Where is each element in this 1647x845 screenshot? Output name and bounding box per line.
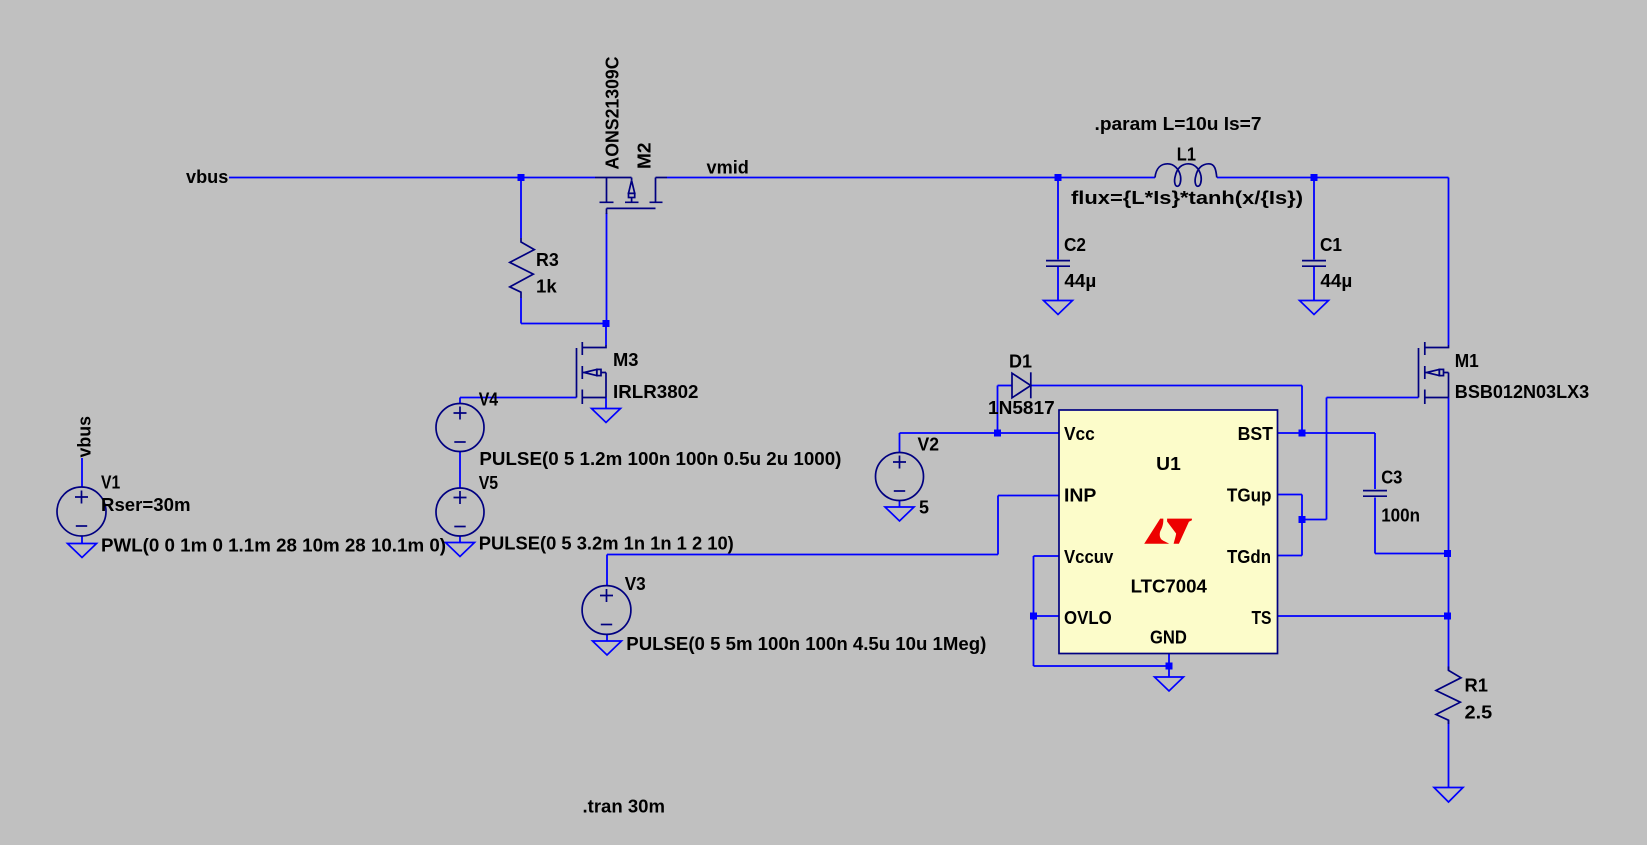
node OVLO junction bbox=[1030, 613, 1037, 620]
svg-text:BSB012N03LX3: BSB012N03LX3 bbox=[1455, 382, 1589, 402]
svg-text:OVLO: OVLO bbox=[1064, 608, 1112, 628]
svg-text:vbus: vbus bbox=[75, 416, 95, 458]
capacitor C2 bbox=[1046, 261, 1070, 267]
wire INP vertical bbox=[997, 496, 999, 555]
wire TS bbox=[1278, 615, 1449, 617]
ground below V3 bbox=[593, 641, 622, 655]
node C2 junction bbox=[1055, 174, 1062, 181]
svg-text:.param L=10u Is=7: .param L=10u Is=7 bbox=[1095, 114, 1262, 134]
wire V3 bottom bbox=[606, 635, 608, 642]
wire C3 bottom bbox=[1374, 498, 1376, 554]
wire R3 to node bbox=[521, 323, 606, 325]
wire M3 drain bbox=[605, 324, 607, 346]
resistor R1 bbox=[1436, 667, 1461, 725]
svg-text:R3: R3 bbox=[536, 250, 559, 270]
wire TGup vertical bbox=[1301, 495, 1303, 520]
diode D1 (1N5817) bbox=[1012, 372, 1031, 398]
svg-text:PWL(0 0 1m 0 1.1m 28 10m 28 10: PWL(0 0 1m 0 1.1m 28 10m 28 10.1m 0) bbox=[101, 536, 446, 556]
svg-text:100n: 100n bbox=[1381, 506, 1420, 526]
svg-text:.tran 30m: .tran 30m bbox=[583, 797, 666, 817]
svg-text:Vcc: Vcc bbox=[1064, 424, 1095, 444]
wire mid right vertical bbox=[1448, 554, 1450, 617]
svg-text:5: 5 bbox=[919, 498, 929, 518]
svg-text:M1: M1 bbox=[1455, 351, 1479, 371]
svg-text:Vccuv: Vccuv bbox=[1064, 547, 1113, 567]
node TG junction bbox=[1299, 516, 1306, 523]
svg-text:V5: V5 bbox=[479, 473, 498, 493]
svg-text:1N5817: 1N5817 bbox=[988, 398, 1055, 418]
resistor R3 bbox=[510, 238, 535, 298]
wire BST vertical bbox=[1301, 386, 1303, 434]
wire GND pin bbox=[1168, 654, 1170, 678]
wire C2 bottom bbox=[1057, 267, 1059, 301]
wire C1 bottom bbox=[1313, 267, 1315, 301]
wire Vcc bbox=[998, 432, 1060, 434]
svg-text:TS: TS bbox=[1252, 608, 1272, 628]
wire D1 anode horizontal bbox=[998, 385, 1013, 387]
svg-text:flux={L*Is}*tanh(x/{Is}): flux={L*Is}*tanh(x/{Is}) bbox=[1071, 188, 1303, 208]
svg-text:INP: INP bbox=[1064, 486, 1096, 506]
ground below C1 bbox=[1300, 301, 1329, 315]
svg-text:V4: V4 bbox=[479, 390, 498, 410]
svg-text:V3: V3 bbox=[625, 574, 646, 594]
node R3/M3 junction bbox=[603, 320, 610, 327]
node C1 junction bbox=[1311, 174, 1318, 181]
wire M1 gate bbox=[1327, 397, 1419, 399]
wire V4 to V5 bbox=[459, 452, 461, 489]
svg-text:PULSE(0 5 5m 100n 100n 4.5u 10: PULSE(0 5 5m 100n 100n 4.5u 10u 1Meg) bbox=[626, 634, 986, 654]
wire bottom to GND bbox=[1034, 665, 1170, 667]
svg-text:TGdn: TGdn bbox=[1227, 547, 1271, 567]
svg-text:C3: C3 bbox=[1381, 468, 1402, 488]
wire INP horizontal bbox=[998, 495, 1059, 497]
wire Vccuv vertical bbox=[1033, 556, 1035, 666]
wire vmid horizontal bbox=[667, 177, 1155, 179]
node GND junction bbox=[1166, 663, 1173, 670]
svg-text:M3: M3 bbox=[613, 350, 639, 370]
LT logo bbox=[1144, 519, 1192, 544]
wire right vertical to M1 drain bbox=[1448, 178, 1450, 346]
voltage source V5 bbox=[436, 488, 484, 536]
svg-text:Rser=30m: Rser=30m bbox=[101, 495, 191, 515]
wire V3 riser bbox=[606, 555, 608, 587]
wire V1 bottom bbox=[81, 536, 83, 544]
node Vcc junction bbox=[994, 430, 1001, 437]
svg-text:V1: V1 bbox=[101, 473, 120, 493]
ground below C2 bbox=[1044, 301, 1073, 315]
capacitor C3 bbox=[1363, 491, 1387, 497]
voltage source V2 bbox=[876, 453, 924, 501]
op-amp U1 body (LTC7004 box) bbox=[1059, 410, 1278, 654]
wire TGup horizontal bbox=[1278, 494, 1302, 496]
svg-text:vmid: vmid bbox=[707, 158, 749, 178]
ground below R1 bbox=[1434, 788, 1463, 803]
wire R1 top bbox=[1448, 616, 1450, 671]
wire OVLO bbox=[1034, 615, 1060, 617]
svg-text:M2: M2 bbox=[635, 143, 655, 170]
wire C1 top bbox=[1313, 178, 1315, 260]
svg-text:44µ: 44µ bbox=[1320, 271, 1352, 291]
wire top-right horizontal bbox=[1217, 177, 1449, 179]
transistor M2 (PMOS AONS21309C, rotated) bbox=[595, 178, 667, 215]
svg-text:L1: L1 bbox=[1177, 145, 1196, 165]
wire R1 bottom bbox=[1448, 720, 1450, 787]
svg-text:V2: V2 bbox=[918, 435, 940, 455]
wire M3 gate to V4 bbox=[460, 397, 577, 399]
wire TGdn vertical bbox=[1301, 520, 1303, 556]
wire TGdn horizontal bbox=[1278, 555, 1302, 557]
node vbus/R3 junction bbox=[518, 174, 525, 181]
wire V1 top bbox=[81, 458, 83, 488]
voltage source V1 bbox=[57, 487, 106, 536]
svg-text:D1: D1 bbox=[1009, 352, 1032, 372]
wire M2 gate down bbox=[606, 213, 608, 324]
wire M1 source down bbox=[1448, 398, 1450, 554]
wire R3 top bbox=[520, 178, 522, 239]
svg-text:PULSE(0 5 1.2m 100n 100n 0.5u: PULSE(0 5 1.2m 100n 100n 0.5u 2u 1000) bbox=[479, 449, 841, 469]
wire V5 to ground bbox=[459, 536, 461, 543]
svg-text:IRLR3802: IRLR3802 bbox=[613, 382, 699, 402]
capacitor C1 bbox=[1302, 261, 1326, 267]
ground below U1 GND pin bbox=[1155, 677, 1184, 691]
svg-text:GND: GND bbox=[1150, 628, 1187, 648]
ground below V2 bbox=[885, 507, 914, 521]
inductor L1 bbox=[1155, 164, 1217, 187]
wire R3 bottom bbox=[520, 298, 522, 324]
ground below M3 bbox=[592, 409, 621, 423]
node BST junction bbox=[1299, 430, 1306, 437]
ground below V5 bbox=[446, 543, 475, 557]
node TS junction bbox=[1444, 613, 1451, 620]
node C3 junction bbox=[1444, 550, 1451, 557]
wire V3 to INP corner bbox=[607, 554, 998, 556]
wire C3 bottom horizontal bbox=[1375, 553, 1449, 555]
wire V4 stub bbox=[459, 398, 461, 404]
wire Vccuv horizontal bbox=[1034, 555, 1060, 557]
wire TG node horizontal bbox=[1302, 519, 1327, 521]
wire TG vertical riser bbox=[1326, 398, 1328, 520]
transistor M1 (NMOS BSB012N03LX3) bbox=[1419, 342, 1449, 404]
svg-text:PULSE(0 5 3.2m 1n 1n 1 2 10): PULSE(0 5 3.2m 1n 1n 1 2 10) bbox=[479, 534, 734, 554]
wire C2 top bbox=[1057, 178, 1059, 260]
wire M3 source to ground bbox=[605, 398, 607, 409]
svg-text:LTC7004: LTC7004 bbox=[1131, 576, 1207, 596]
svg-text:AONS21309C: AONS21309C bbox=[603, 57, 623, 170]
svg-text:1k: 1k bbox=[536, 277, 558, 297]
wire D1 cathode to BST corner bbox=[1031, 385, 1302, 387]
wire V2 to Vcc node bbox=[900, 432, 998, 434]
wire D1 anode vertical bbox=[997, 386, 999, 434]
voltage source V3 bbox=[582, 586, 631, 635]
voltage source V4 bbox=[436, 404, 484, 452]
wire BST horizontal bbox=[1278, 432, 1375, 434]
transistor M3 (NMOS IRLR3802) bbox=[577, 342, 607, 404]
svg-text:R1: R1 bbox=[1465, 676, 1489, 696]
ground below V1 bbox=[68, 544, 97, 558]
wire vbus horizontal bbox=[229, 177, 595, 179]
svg-text:44µ: 44µ bbox=[1064, 271, 1096, 291]
svg-text:C2: C2 bbox=[1064, 235, 1086, 255]
svg-text:TGup: TGup bbox=[1227, 486, 1272, 506]
svg-text:BST: BST bbox=[1238, 424, 1273, 444]
wire V2 bottom bbox=[899, 501, 901, 508]
svg-text:2.5: 2.5 bbox=[1465, 703, 1493, 723]
wire V2 stub bbox=[899, 433, 901, 453]
svg-text:vbus: vbus bbox=[186, 167, 228, 187]
wire C3 top bbox=[1374, 433, 1376, 489]
svg-text:C1: C1 bbox=[1320, 235, 1342, 255]
svg-text:U1: U1 bbox=[1156, 454, 1181, 474]
